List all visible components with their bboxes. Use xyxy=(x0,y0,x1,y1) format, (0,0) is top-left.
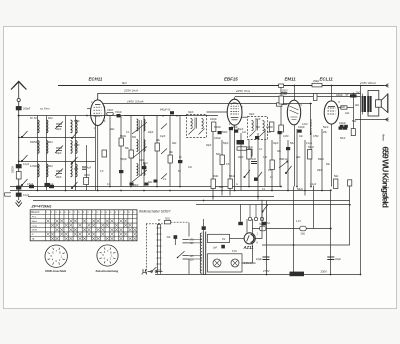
svg-text:30pF: 30pF xyxy=(249,113,255,116)
svg-text:Zwischenleitung: Zwischenleitung xyxy=(96,269,119,273)
svg-text:3kΩ: 3kΩ xyxy=(172,142,177,145)
svg-text:9kV: 9kV xyxy=(122,81,127,85)
svg-text:ca. Fern: ca. Fern xyxy=(40,107,50,111)
svg-text:50kΩ: 50kΩ xyxy=(297,188,303,191)
svg-text:20pF: 20pF xyxy=(148,131,154,134)
svg-text:UKW-Anschluß: UKW-Anschluß xyxy=(45,269,66,273)
svg-text:225V 2mA: 225V 2mA xyxy=(123,89,138,93)
svg-text:30pF: 30pF xyxy=(206,144,212,147)
svg-text:0,1μF: 0,1μF xyxy=(47,183,54,186)
svg-text:1MΩ log: 1MΩ log xyxy=(279,158,289,161)
svg-text:100pF: 100pF xyxy=(214,137,221,140)
svg-text:CZ03: CZ03 xyxy=(107,109,114,112)
svg-text:0,5μF: 0,5μF xyxy=(27,183,34,186)
svg-text:30Ω: 30Ω xyxy=(165,217,170,221)
svg-text:M42: M42 xyxy=(48,165,53,168)
svg-text:500: 500 xyxy=(132,136,137,139)
svg-text:Wellenschalter 6336/7: Wellenschalter 6336/7 xyxy=(139,210,171,214)
svg-text:9kΩ: 9kΩ xyxy=(110,128,115,131)
svg-text:1kΩ: 1kΩ xyxy=(345,112,350,115)
svg-text:41pF: 41pF xyxy=(160,135,166,138)
svg-text:6,3V: 6,3V xyxy=(232,250,237,253)
svg-text:Fern: Fern xyxy=(32,216,37,218)
svg-text:700pF: 700pF xyxy=(115,111,122,114)
svg-text:16μF: 16μF xyxy=(256,257,262,261)
svg-text:0,1μF: 0,1μF xyxy=(310,183,317,186)
svg-text:4V: 4V xyxy=(222,237,225,241)
svg-text:200pF: 200pF xyxy=(23,107,31,111)
svg-text:100pF: 100pF xyxy=(339,122,346,125)
svg-text:25pF: 25pF xyxy=(317,169,323,172)
svg-text:7kΩ: 7kΩ xyxy=(356,92,361,95)
svg-text:100pF: 100pF xyxy=(231,126,238,129)
svg-text:5kΩ: 5kΩ xyxy=(334,175,339,178)
svg-text:1,1V: 1,1V xyxy=(296,220,301,223)
svg-text:50kΩ: 50kΩ xyxy=(308,146,314,149)
svg-text:Lang: Lang xyxy=(32,225,38,227)
svg-text:5kΩ: 5kΩ xyxy=(352,120,357,123)
svg-text:EM11: EM11 xyxy=(285,77,297,82)
svg-text:1nF: 1nF xyxy=(252,158,257,161)
svg-text:Bereich: Bereich xyxy=(31,211,40,214)
svg-text:100pF: 100pF xyxy=(298,126,305,129)
svg-text:1nF: 1nF xyxy=(242,131,247,134)
svg-text:20pF: 20pF xyxy=(56,128,62,131)
svg-text:4μF: 4μF xyxy=(87,167,92,170)
svg-text:0,1μF: 0,1μF xyxy=(23,163,30,166)
svg-text:700pF: 700pF xyxy=(120,158,127,161)
svg-text:25kΩ: 25kΩ xyxy=(313,79,319,83)
svg-text:1400: 1400 xyxy=(74,144,80,147)
svg-text:20pF: 20pF xyxy=(238,156,244,159)
svg-text:30000: 30000 xyxy=(12,166,15,173)
svg-text:30pF: 30pF xyxy=(188,111,194,114)
svg-text:50kΩ: 50kΩ xyxy=(318,158,324,161)
svg-text:50kΩ: 50kΩ xyxy=(229,175,235,178)
svg-text:30pF: 30pF xyxy=(255,118,261,121)
svg-text:M42: M42 xyxy=(143,162,148,165)
svg-text:659 WU Königsfeld: 659 WU Königsfeld xyxy=(381,147,391,208)
svg-text:10000: 10000 xyxy=(266,126,273,129)
svg-text:50nF: 50nF xyxy=(340,137,346,140)
svg-text:2×8V 30mA: 2×8V 30mA xyxy=(359,81,376,85)
svg-text:M42: M42 xyxy=(48,141,53,144)
svg-text:300Ω: 300Ω xyxy=(84,174,90,177)
svg-text:100pF: 100pF xyxy=(210,118,217,121)
svg-text:ZF=473kHz: ZF=473kHz xyxy=(31,205,52,209)
svg-text:250V: 250V xyxy=(282,90,288,93)
svg-text:AZ11: AZ11 xyxy=(243,245,255,250)
svg-text:5kΩ: 5kΩ xyxy=(216,153,221,156)
svg-text:20kΩ: 20kΩ xyxy=(247,146,253,149)
svg-text:1nF: 1nF xyxy=(188,166,193,169)
svg-text:5nF: 5nF xyxy=(267,131,272,134)
svg-text:145V 3,5mA: 145V 3,5mA xyxy=(127,100,144,104)
svg-text:0,1M: 0,1M xyxy=(302,123,307,126)
svg-text:180pF: 180pF xyxy=(336,94,343,97)
svg-text:50000: 50000 xyxy=(214,126,221,129)
svg-text:5nF: 5nF xyxy=(256,126,261,129)
svg-text:50pF: 50pF xyxy=(223,142,229,145)
svg-text:0,3A: 0,3A xyxy=(265,222,270,225)
svg-text:1nF: 1nF xyxy=(263,156,268,159)
svg-text:225V 7mA: 225V 7mA xyxy=(235,89,250,93)
svg-text:3nF: 3nF xyxy=(167,236,172,239)
svg-text:220: 220 xyxy=(190,242,195,245)
svg-text:9M42: 9M42 xyxy=(120,135,127,138)
svg-text:32μF: 32μF xyxy=(335,257,341,261)
svg-text:2kΩ: 2kΩ xyxy=(296,156,301,159)
svg-text:6300: 6300 xyxy=(74,120,80,123)
svg-text:0,1μF: 0,1μF xyxy=(23,194,30,197)
svg-text:0,2M: 0,2M xyxy=(283,135,288,138)
svg-text:5000: 5000 xyxy=(222,131,228,134)
svg-text:6,3V 0,3A: 6,3V 0,3A xyxy=(244,261,256,265)
svg-text:1kΩ: 1kΩ xyxy=(355,104,360,107)
svg-text:G: G xyxy=(236,183,238,186)
svg-text:3nF: 3nF xyxy=(341,106,346,109)
svg-text:230V: 230V xyxy=(321,269,328,273)
svg-text:M42: M42 xyxy=(48,117,53,120)
svg-text:25pF: 25pF xyxy=(133,184,139,187)
svg-text:0,5M: 0,5M xyxy=(313,135,318,138)
svg-text:5kΩ: 5kΩ xyxy=(148,181,153,184)
svg-text:ECH11: ECH11 xyxy=(89,77,103,82)
svg-text:7kΩ: 7kΩ xyxy=(259,223,264,226)
svg-text:Mittel: Mittel xyxy=(32,220,38,223)
svg-text:110: 110 xyxy=(190,258,194,261)
svg-text:3nF: 3nF xyxy=(213,246,218,249)
svg-text:EBF15: EBF15 xyxy=(224,77,238,82)
svg-text:25pF: 25pF xyxy=(56,176,62,179)
svg-text:0,1μF: 0,1μF xyxy=(306,142,313,145)
svg-text:U12V 8/9mA: U12V 8/9mA xyxy=(309,119,313,134)
svg-text:30pF: 30pF xyxy=(273,142,279,145)
svg-text:50nF: 50nF xyxy=(323,126,329,129)
svg-text:275V: 275V xyxy=(263,269,270,273)
svg-text:Arne: Arne xyxy=(382,134,386,141)
svg-text:0,3M: 0,3M xyxy=(281,92,287,96)
svg-text:5kΩ: 5kΩ xyxy=(219,186,224,189)
svg-text:840μF 60: 840μF 60 xyxy=(160,108,171,111)
svg-text:45pF: 45pF xyxy=(56,152,62,155)
svg-text:500: 500 xyxy=(34,141,39,144)
svg-text:7μF: 7μF xyxy=(345,93,350,96)
svg-text:370: 370 xyxy=(74,168,79,171)
svg-text:1MΩ: 1MΩ xyxy=(213,175,218,178)
svg-text:2kΩ: 2kΩ xyxy=(301,233,306,236)
svg-text:500: 500 xyxy=(30,141,35,144)
svg-text:10n: 10n xyxy=(299,135,304,138)
svg-text:ECL11: ECL11 xyxy=(320,77,334,82)
svg-text:3000: 3000 xyxy=(33,165,39,168)
